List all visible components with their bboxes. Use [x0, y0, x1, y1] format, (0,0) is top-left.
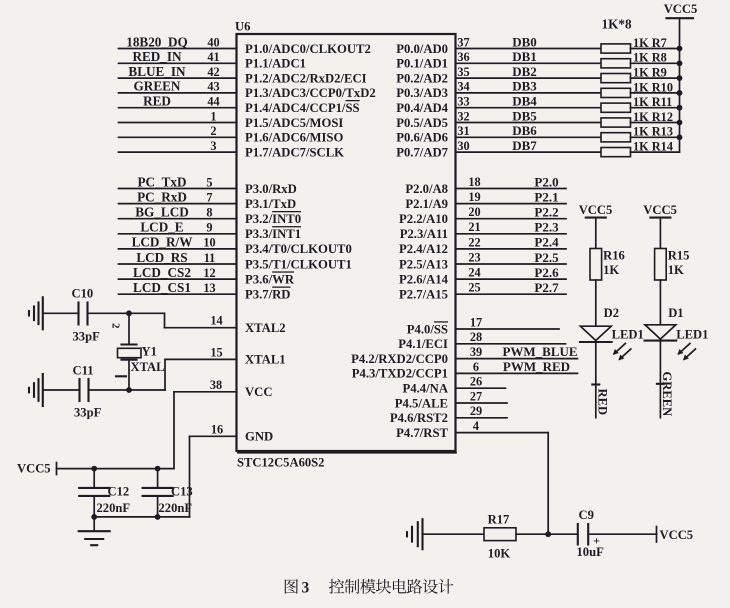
- svg-text:P0.2/AD2: P0.2/AD2: [396, 71, 448, 85]
- svg-text:33: 33: [457, 95, 469, 109]
- svg-text:C10: C10: [72, 287, 94, 301]
- junction R8/rail: [677, 60, 683, 66]
- svg-text:DB7: DB7: [512, 138, 537, 153]
- junction R9/rail: [677, 75, 683, 81]
- wire pin 11 (P3.5): [119, 263, 237, 265]
- junction R13/rail: [677, 134, 683, 140]
- svg-text:R15: R15: [668, 249, 690, 263]
- wire pin 38 VCC: [174, 391, 237, 393]
- svg-text:P3.6/WR: P3.6/WR: [245, 272, 295, 286]
- svg-text:P1.0/ADC0/CLKOUT2: P1.0/ADC0/CLKOUT2: [245, 42, 371, 56]
- svg-text:7: 7: [206, 190, 212, 204]
- svg-text:21: 21: [468, 220, 480, 234]
- wire R15 to D1: [659, 280, 661, 325]
- junction XTAL1 node: [126, 387, 132, 393]
- svg-text:PWM_BLUE: PWM_BLUE: [502, 344, 577, 359]
- resistor R8 1K: [601, 59, 631, 68]
- svg-text:P1.4/ADC4/CCP1/SS: P1.4/ADC4/CCP1/SS: [245, 101, 360, 115]
- capacitor C9 10uF: [577, 524, 579, 545]
- svg-text:R17: R17: [488, 513, 510, 527]
- svg-text:36: 36: [457, 50, 469, 64]
- svg-text:40: 40: [207, 35, 219, 49]
- svg-text:LED1: LED1: [612, 328, 644, 342]
- MCU U6 STC12C5A60S2: [237, 34, 456, 451]
- capacitor C11 33pF: [78, 379, 80, 401]
- power VCC5 (bottom right port): [656, 527, 658, 543]
- wire pin 22 P2.4: [456, 248, 567, 250]
- wire C10 to XTAL2 node: [88, 312, 165, 314]
- svg-text:VCC5: VCC5: [664, 2, 698, 16]
- resistor R15 1K: [655, 249, 667, 281]
- svg-text:32: 32: [457, 109, 469, 123]
- svg-text:17: 17: [470, 315, 482, 329]
- svg-text:38: 38: [210, 378, 222, 392]
- wire pin 32 P0.5 to resistor R12: [456, 122, 602, 124]
- svg-text:D1: D1: [668, 306, 683, 320]
- wire pin 36 P0.1 to resistor R8: [456, 62, 602, 64]
- svg-text:VCC5: VCC5: [579, 203, 613, 217]
- svg-text:P4.2/RXD2/CCP0: P4.2/RXD2/CCP0: [351, 352, 448, 366]
- light arrows D2: [614, 344, 625, 354]
- svg-text:20: 20: [468, 205, 480, 219]
- svg-text:P2.7: P2.7: [534, 280, 559, 295]
- svg-text:DB1: DB1: [512, 49, 537, 64]
- wire pin 33 P0.4 to resistor R11: [456, 107, 602, 109]
- svg-text:1K*8: 1K*8: [602, 17, 632, 32]
- wire R10 to VCC5 rail: [631, 92, 680, 94]
- svg-text:DB3: DB3: [512, 79, 537, 94]
- wire D2 cathode down: [595, 342, 597, 418]
- wire R16 to D2: [595, 280, 597, 326]
- svg-text:P3.0/RxD: P3.0/RxD: [245, 182, 297, 196]
- wire C9 to VCC5: [588, 533, 656, 535]
- wire pin 4 down to RC node: [547, 433, 549, 535]
- svg-text:28: 28: [470, 330, 482, 344]
- svg-text:D2: D2: [604, 306, 619, 320]
- svg-text:RED: RED: [595, 389, 609, 416]
- resistor R10 1K: [601, 88, 631, 97]
- wire R13 to VCC5 rail: [631, 136, 680, 138]
- wire pin 24 P2.6: [456, 278, 567, 280]
- ground (below C12): [93, 517, 95, 531]
- svg-text:2: 2: [110, 323, 122, 329]
- wire pin 30 P0.7 to resistor R14: [456, 151, 602, 153]
- svg-text:VCC5: VCC5: [17, 462, 51, 476]
- wire pin 43 (P1.3): [119, 92, 237, 94]
- svg-text:LCD_RS: LCD_RS: [136, 250, 187, 265]
- svg-text:C12: C12: [108, 485, 130, 499]
- light arrows D1: [679, 344, 690, 354]
- ground (C11 left): [28, 388, 30, 393]
- svg-text:19: 19: [468, 190, 480, 204]
- wire ground to C11: [43, 389, 79, 391]
- svg-text:1K: 1K: [668, 263, 684, 277]
- junction XTAL2 node: [126, 310, 132, 316]
- svg-text:XTAL2: XTAL2: [245, 321, 286, 335]
- svg-text:18: 18: [468, 175, 480, 189]
- svg-text:35: 35: [457, 65, 469, 79]
- svg-text:P2.7/A15: P2.7/A15: [399, 288, 448, 302]
- wire ground rail (caps bottom): [94, 516, 189, 518]
- wire VCC5 rail: [679, 18, 681, 152]
- junction C13 bottom: [155, 514, 161, 520]
- svg-text:23: 23: [468, 250, 480, 264]
- resistor R7 1K: [601, 44, 631, 53]
- svg-text:P2.4: P2.4: [534, 235, 559, 250]
- crystal Y1 XTAL: [128, 313, 130, 344]
- wire pin 39 P4.2: [456, 358, 578, 360]
- crystal pin mark 1: [116, 375, 126, 377]
- svg-text:2: 2: [210, 124, 216, 138]
- wire pin 2 (P1.6): [119, 136, 237, 138]
- wire pin 13 (P3.7): [119, 293, 237, 295]
- svg-text:P4.4/NA: P4.4/NA: [403, 382, 449, 396]
- wire pin 3 (P1.7): [119, 151, 237, 153]
- port tick RED: [592, 383, 599, 385]
- wire pin 19 P2.1: [456, 203, 567, 205]
- wire pin 18 P2.0: [456, 188, 567, 190]
- svg-text:VCC: VCC: [245, 385, 273, 399]
- svg-text:P2.2/A10: P2.2/A10: [399, 212, 448, 226]
- wire pin 16 GND: [190, 435, 237, 437]
- svg-text:P1.5/ADC5/MOSI: P1.5/ADC5/MOSI: [245, 116, 343, 130]
- svg-text:15: 15: [210, 345, 222, 359]
- svg-text:P0.1/AD1: P0.1/AD1: [396, 57, 448, 71]
- svg-text:LED1: LED1: [676, 328, 708, 342]
- svg-text:P1.2/ADC2/RxD2/ECI: P1.2/ADC2/RxD2/ECI: [245, 71, 367, 85]
- svg-text:BG_LCD: BG_LCD: [135, 205, 189, 220]
- junction R10/rail: [677, 90, 683, 96]
- resistor R9 1K: [601, 74, 631, 83]
- svg-text:VCC5: VCC5: [643, 203, 677, 217]
- svg-text:27: 27: [470, 389, 482, 403]
- wire pin 42 (P1.2): [119, 77, 237, 79]
- wire pin 8 (P3.2): [119, 218, 237, 220]
- junction C13 top: [155, 466, 161, 472]
- svg-text:P0.3/AD3: P0.3/AD3: [396, 86, 448, 100]
- capacitor C12 220nF: [93, 469, 95, 488]
- svg-text:P2.3: P2.3: [534, 220, 559, 235]
- svg-text:39: 39: [470, 345, 482, 359]
- svg-text:Y1: Y1: [142, 345, 157, 359]
- capacitor C13 220nF: [157, 469, 159, 488]
- svg-text:PC_TxD: PC_TxD: [137, 174, 186, 189]
- svg-text:P1.7/ADC7/SCLK: P1.7/ADC7/SCLK: [245, 145, 344, 159]
- svg-text:220nF: 220nF: [97, 501, 131, 515]
- svg-text:GREEN: GREEN: [660, 372, 674, 417]
- wire pin 15 XTAL1: [129, 389, 165, 391]
- svg-text:P2.5: P2.5: [534, 250, 559, 265]
- svg-text:4: 4: [473, 419, 479, 433]
- svg-text:P2.1/A9: P2.1/A9: [405, 197, 448, 211]
- wire pin 35 P0.2 to resistor R9: [456, 77, 602, 79]
- svg-text:P4.3/TXD2/CCP1: P4.3/TXD2/CCP1: [352, 367, 448, 381]
- svg-text:9: 9: [206, 221, 212, 235]
- svg-text:10: 10: [203, 236, 215, 250]
- wire pin 31 P0.6 to resistor R13: [456, 136, 602, 138]
- wire pin 28 P4.1: [456, 343, 566, 345]
- svg-text:34: 34: [457, 80, 469, 94]
- wire pin 14 XTAL2: [164, 313, 166, 327]
- wire pin 27 P4.5: [456, 402, 508, 404]
- svg-text:P2.1: P2.1: [534, 189, 558, 204]
- svg-text:16: 16: [211, 422, 223, 436]
- wire R12 to VCC5 rail: [631, 122, 680, 124]
- svg-text:P0.7/AD7: P0.7/AD7: [396, 145, 448, 159]
- svg-text:18B20_DQ: 18B20_DQ: [126, 34, 188, 49]
- wire pin 6 P4.3: [456, 372, 578, 374]
- svg-text:44: 44: [207, 95, 219, 109]
- caption 图3 控制模块电路设计: [285, 579, 454, 597]
- resistor R17 10K: [484, 528, 516, 541]
- wire ground to R17: [423, 533, 485, 535]
- svg-text:P2.3/A11: P2.3/A11: [400, 227, 448, 241]
- wire R11 to VCC5 rail: [631, 107, 680, 109]
- junction R7/rail: [677, 46, 683, 52]
- wire pin 17 P4.0: [456, 328, 560, 330]
- svg-text:P3.2/INT0: P3.2/INT0: [245, 212, 301, 226]
- svg-text:P4.7/RST: P4.7/RST: [396, 426, 448, 440]
- svg-text:P2.0/A8: P2.0/A8: [405, 182, 448, 196]
- svg-text:VCC5: VCC5: [660, 528, 694, 542]
- svg-text:5: 5: [206, 175, 212, 189]
- svg-text:P2.6: P2.6: [534, 265, 559, 280]
- wire pin 9 (P3.3): [119, 233, 237, 235]
- wire R9 to VCC5 rail: [631, 77, 680, 79]
- svg-text:P0.6/AD6: P0.6/AD6: [396, 131, 448, 145]
- svg-text:DB6: DB6: [512, 123, 537, 138]
- svg-text:26: 26: [470, 375, 482, 389]
- junction C12 bottom: [91, 514, 97, 520]
- wire C11 to XTAL1 node: [89, 389, 130, 391]
- svg-text:22: 22: [468, 235, 480, 249]
- svg-text:33pF: 33pF: [73, 330, 101, 344]
- junction C12 top: [91, 466, 97, 472]
- wire pin 25 P2.7: [456, 293, 567, 295]
- svg-text:P4.1/ECI: P4.1/ECI: [398, 337, 448, 351]
- resistor R11 1K: [601, 103, 631, 112]
- junction R12/rail: [677, 120, 683, 126]
- wire pin 20 P2.2: [456, 218, 567, 220]
- svg-text:24: 24: [468, 266, 480, 280]
- svg-text:P1.6/ADC6/MISO: P1.6/ADC6/MISO: [245, 131, 343, 145]
- svg-text:DB4: DB4: [512, 94, 537, 109]
- svg-text:P3.1/TxD: P3.1/TxD: [245, 197, 296, 211]
- svg-text:220nF: 220nF: [159, 501, 193, 515]
- wire pin 34 P0.3 to resistor R10: [456, 92, 602, 94]
- wire pin 10 (P3.4): [119, 248, 237, 250]
- svg-text:LCD_CS2: LCD_CS2: [133, 265, 191, 280]
- junction R11/rail: [677, 105, 683, 111]
- resistor R16 1K: [590, 249, 602, 281]
- svg-text:1K: 1K: [603, 263, 619, 277]
- svg-text:DB0: DB0: [512, 34, 537, 49]
- svg-text:GREEN: GREEN: [134, 79, 181, 94]
- svg-text:XTAL: XTAL: [131, 360, 165, 374]
- wire pin 1 (P1.5): [119, 122, 237, 124]
- svg-text:14: 14: [210, 314, 222, 328]
- svg-text:DB2: DB2: [512, 64, 537, 79]
- svg-text:P4.5/ALE: P4.5/ALE: [395, 396, 448, 410]
- svg-text:P2.0: P2.0: [534, 174, 558, 189]
- resistor R13 1K: [601, 133, 631, 142]
- wire pin 44 (P1.4): [119, 107, 237, 109]
- wire VCC5 to R15: [659, 218, 661, 249]
- wire VCC5 to pin 38: [57, 468, 175, 470]
- svg-text:R16: R16: [603, 249, 625, 263]
- wire pin 29 P4.6: [456, 417, 508, 419]
- wire R7 to VCC5 rail: [631, 48, 680, 50]
- svg-text:STC12C5A60S2: STC12C5A60S2: [237, 456, 324, 470]
- wire R14 to VCC5 rail: [631, 151, 680, 153]
- svg-text:P3.3/INT1: P3.3/INT1: [245, 227, 301, 241]
- wire pin 12 (P3.6): [119, 278, 237, 280]
- svg-text:LCD_CS1: LCD_CS1: [133, 280, 191, 295]
- svg-text:BLUE_IN: BLUE_IN: [128, 64, 186, 79]
- svg-text:P4.6/RST2: P4.6/RST2: [390, 411, 448, 425]
- wire pin 21 P2.3: [456, 233, 567, 235]
- svg-text:P0.4/AD4: P0.4/AD4: [396, 101, 448, 115]
- svg-text:P2.5/A13: P2.5/A13: [399, 257, 448, 271]
- svg-text:GND: GND: [245, 430, 273, 444]
- svg-text:12: 12: [203, 266, 215, 280]
- ground (C10 left): [28, 311, 30, 316]
- wire pin 23 P2.5: [456, 263, 567, 265]
- svg-text:P2.2: P2.2: [534, 205, 558, 220]
- svg-text:PC_RxD: PC_RxD: [137, 189, 187, 204]
- svg-text:DB5: DB5: [512, 108, 537, 123]
- wire pin 26 P4.4: [456, 387, 506, 389]
- capacitor C10 33pF: [77, 303, 79, 325]
- resistor R12 1K: [601, 118, 631, 127]
- wire R8 to VCC5 rail: [631, 62, 680, 64]
- svg-text:RED: RED: [143, 94, 171, 109]
- svg-text:P3.4/T0/CLKOUT0: P3.4/T0/CLKOUT0: [245, 242, 352, 256]
- svg-text:P3.7/RD: P3.7/RD: [245, 288, 290, 302]
- svg-text:P2.4/A12: P2.4/A12: [399, 242, 448, 256]
- wire R17 to C9: [516, 533, 578, 535]
- svg-text:6: 6: [473, 360, 479, 374]
- svg-text:30: 30: [457, 139, 469, 153]
- svg-text:LCD_R/W: LCD_R/W: [132, 235, 193, 250]
- svg-text:31: 31: [457, 124, 469, 138]
- wire pin 37 P0.0 to resistor R7: [456, 48, 602, 50]
- svg-text:1: 1: [210, 109, 216, 123]
- svg-text:42: 42: [207, 65, 219, 79]
- svg-text:LCD_E: LCD_E: [140, 220, 183, 235]
- wire VCC5 to R16: [595, 218, 597, 249]
- svg-text:C9: C9: [579, 508, 594, 522]
- wire pin 40 (P1.0): [119, 48, 237, 50]
- svg-text:11: 11: [204, 251, 216, 265]
- svg-text:P2.6/A14: P2.6/A14: [399, 272, 449, 286]
- wire pin 4 P4.7: [456, 432, 549, 434]
- junction RST node: [545, 531, 551, 537]
- svg-text:8: 8: [206, 206, 212, 220]
- wire pin 7 (P3.1): [119, 203, 237, 205]
- svg-text:P1.3/ADC3/CCP0/TxD2: P1.3/ADC3/CCP0/TxD2: [245, 86, 376, 100]
- svg-text:P4.0/SS: P4.0/SS: [407, 322, 448, 336]
- svg-text:PWM_RED: PWM_RED: [503, 359, 570, 374]
- svg-text:3: 3: [302, 580, 310, 597]
- svg-text:RED_IN: RED_IN: [132, 49, 182, 64]
- svg-text:25: 25: [468, 281, 480, 295]
- wire D1 cathode down: [659, 341, 661, 418]
- svg-text:10K: 10K: [488, 547, 511, 561]
- svg-text:29: 29: [470, 404, 482, 418]
- wire pin 41 (P1.1): [119, 62, 237, 64]
- ground (left of R17): [406, 532, 408, 536]
- svg-text:P3.5/T1/CLKOUT1: P3.5/T1/CLKOUT1: [245, 257, 352, 271]
- port tick GREEN: [657, 383, 664, 385]
- resistor R14 1K: [601, 148, 631, 157]
- wire ground to C10: [43, 312, 78, 314]
- svg-text:XTAL1: XTAL1: [245, 353, 286, 367]
- svg-text:43: 43: [207, 80, 219, 94]
- svg-text:37: 37: [457, 35, 469, 49]
- svg-text:U6: U6: [235, 20, 250, 34]
- svg-text:C13: C13: [171, 485, 193, 499]
- svg-text:3: 3: [210, 139, 216, 153]
- svg-text:33pF: 33pF: [74, 406, 102, 420]
- svg-text:41: 41: [207, 50, 219, 64]
- svg-text:P0.5/AD5: P0.5/AD5: [396, 116, 448, 130]
- svg-text:10uF: 10uF: [577, 545, 605, 559]
- svg-text:P0.0/AD0: P0.0/AD0: [396, 42, 448, 56]
- svg-text:P1.1/ADC1: P1.1/ADC1: [245, 57, 306, 71]
- svg-text:13: 13: [203, 281, 215, 295]
- svg-text:C11: C11: [73, 364, 94, 378]
- wire pin 5 (P3.0): [119, 188, 237, 190]
